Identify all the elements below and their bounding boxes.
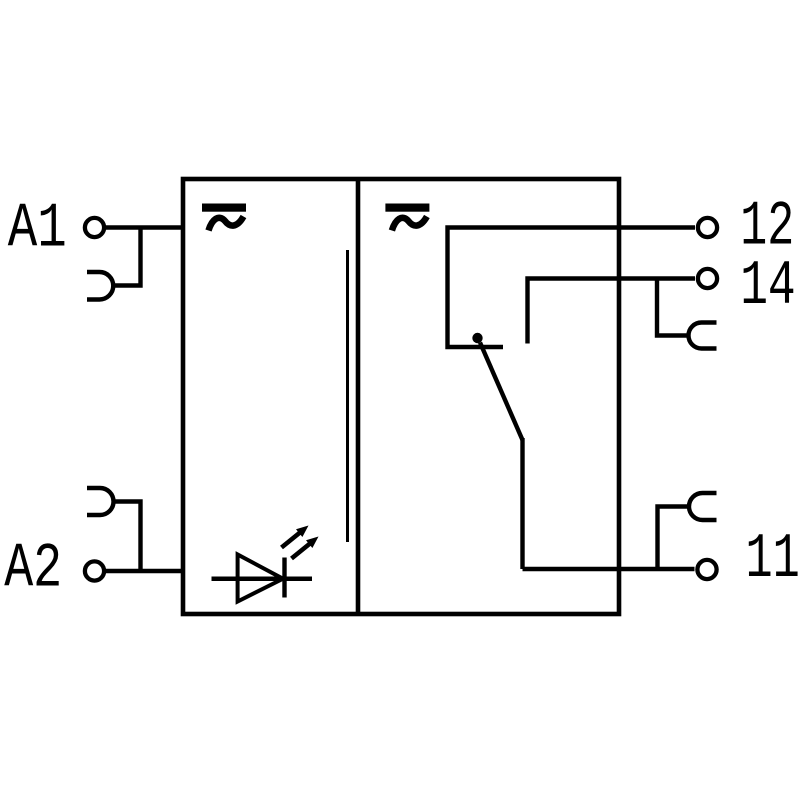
plug-in clamp 11	[689, 493, 717, 520]
terminal circle A1	[85, 218, 104, 237]
LED indicator anode lead	[212, 577, 313, 581]
wire 14 to NO fixed contact	[528, 279, 696, 344]
internal divider wall	[356, 179, 361, 614]
terminal circle 14	[698, 269, 717, 288]
svg-text:11: 11	[746, 524, 800, 595]
wire A1 to coil box	[106, 225, 183, 229]
terminal circle 12	[698, 218, 717, 237]
wire 14 branch to clamp	[657, 279, 687, 336]
svg-text:A1: A1	[8, 193, 67, 264]
wire contact arm to terminal 11	[520, 438, 524, 569]
LED cathode bar	[282, 558, 286, 598]
wire 12 to NC fixed contact	[448, 228, 696, 348]
svg-text:A2: A2	[4, 534, 62, 605]
LED emission arrow 1	[282, 526, 309, 548]
wire A2 branch to clamp	[113, 502, 141, 572]
coil barrier line	[346, 250, 349, 542]
contact pivot dot	[472, 333, 482, 343]
wire 11 branch to clamp	[658, 507, 689, 570]
plug-in clamp A2	[87, 488, 114, 515]
wire A2 to coil box	[106, 569, 183, 573]
wire 11 common	[523, 567, 695, 571]
wire A1 branch to clamp	[113, 228, 141, 286]
terminal circle 11	[697, 560, 716, 579]
plug-in clamp 14	[689, 323, 717, 349]
AC symbol (coil side)	[202, 204, 246, 231]
relay module body outline	[183, 179, 619, 614]
LED emission arrow 2	[292, 537, 319, 559]
plug-in clamp A1	[87, 272, 113, 300]
movable contact arm	[480, 343, 523, 441]
AC symbol (contact side)	[385, 204, 429, 231]
LED triangle	[238, 555, 283, 602]
svg-text:14: 14	[740, 251, 796, 322]
terminal circle A2	[85, 561, 104, 580]
